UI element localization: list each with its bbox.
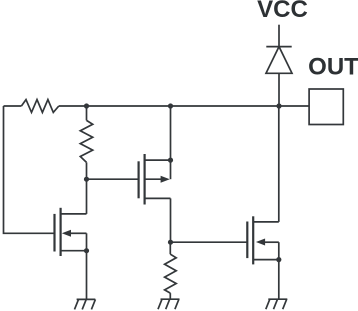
wire diode anode to node C [278, 73, 280, 106]
resistor R1 (feedback, horizontal) [4, 100, 87, 113]
wire Q3 source to ground [278, 260, 280, 300]
wire Q3 drain up to node C [278, 106, 280, 222]
svg-text:VCC: VCC [257, 0, 308, 23]
wire Q2 drain up to node B [170, 106, 172, 179]
wire VCC to diode cathode [278, 25, 280, 47]
wire Q1 body to source [86, 233, 88, 250]
wire rail node B to node C [171, 105, 280, 107]
resistor R3 (vertical at node F) [165, 242, 177, 299]
wire node C to OUT box [279, 105, 309, 107]
node C junction [276, 103, 281, 108]
svg-text:OUT: OUT [308, 54, 358, 81]
wire Q2 source down to node F [170, 198, 172, 242]
transistor Q1 (left MOSFET) [55, 208, 87, 256]
node H junction [84, 248, 89, 253]
wire node D to gate of Q2 [87, 178, 139, 180]
wire Q1 source to ground [86, 251, 88, 300]
wire node F to gate of Q3 [171, 241, 248, 243]
wire left rail [4, 106, 55, 233]
node A junction [84, 103, 89, 108]
node D junction [84, 177, 89, 182]
transistor Q3 (right MOSFET) [247, 216, 278, 264]
wire Q1 drain up to node D [86, 179, 88, 214]
diode D1 [266, 47, 292, 74]
wire Q3 body to source [278, 242, 280, 259]
node G junction [276, 257, 281, 262]
ground GND2 (below R3) [158, 299, 180, 309]
node B junction [168, 103, 173, 108]
resistor R2 (vertical at node A) [80, 106, 92, 179]
wire rail node A to node B [87, 105, 171, 107]
node F junction [168, 240, 173, 245]
ground GND3 (below Q3) [266, 299, 288, 309]
ground GND1 (below Q1) [75, 299, 96, 309]
node E junction [168, 158, 173, 163]
OUT box [309, 89, 343, 125]
transistor Q2 (middle MOSFET) [139, 154, 171, 205]
